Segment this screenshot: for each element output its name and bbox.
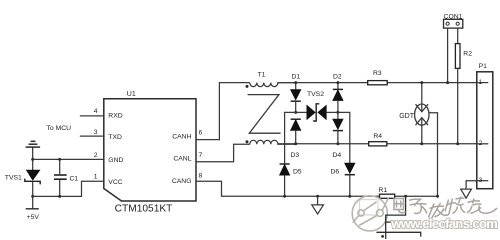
svg-text:D5: D5 bbox=[293, 168, 302, 175]
T1 top winding bbox=[250, 83, 296, 87]
diode D2 bbox=[333, 83, 343, 113]
resistor R2 bbox=[455, 44, 460, 69]
svg-text:R3: R3 bbox=[373, 70, 382, 77]
wire P1 pin3 to earth bbox=[466, 181, 477, 189]
node TVS1 top junction bbox=[31, 158, 34, 161]
svg-text:1: 1 bbox=[94, 173, 98, 180]
node D6 earth junction bbox=[348, 195, 351, 198]
wire pin3 TXD stub bbox=[80, 135, 104, 137]
svg-text:R4: R4 bbox=[373, 133, 382, 140]
svg-text:P1: P1 bbox=[479, 63, 488, 70]
svg-text:1: 1 bbox=[479, 79, 483, 86]
svg-text:T1: T1 bbox=[258, 72, 266, 79]
node R2 bottom junction bbox=[456, 142, 459, 145]
wire bottom rail CANL line bbox=[278, 143, 477, 145]
node D3 bottom bbox=[294, 142, 297, 145]
diode D6 branch wire bbox=[338, 112, 350, 163]
svg-text:TXD: TXD bbox=[108, 134, 122, 141]
烧 bbox=[445, 197, 465, 216]
node TVS2 left bbox=[294, 111, 297, 114]
node C1 top junction bbox=[58, 158, 61, 161]
resistor R3 bbox=[368, 81, 388, 85]
svg-text:3: 3 bbox=[94, 129, 98, 136]
diode D6 bbox=[345, 163, 355, 196]
protective earth symbol (open triangle) bbox=[312, 196, 324, 214]
svg-text:7: 7 bbox=[199, 152, 203, 159]
友 bbox=[467, 199, 497, 214]
diode D5 branch wire bbox=[285, 112, 296, 164]
diode D1 bbox=[291, 83, 301, 113]
wire +5V rail to VCC pin1 bbox=[33, 181, 104, 196]
node D4 bottom bbox=[336, 142, 339, 145]
watermark logo circle bbox=[352, 196, 388, 231]
wire CANH pin6 up to top rail bbox=[196, 83, 250, 140]
node fragment junction on earth rail bbox=[404, 195, 407, 198]
svg-text:U1: U1 bbox=[127, 91, 136, 98]
wire CANL pin7 up to bottom rail bbox=[196, 144, 250, 162]
svg-text:D4: D4 bbox=[333, 152, 342, 159]
gas discharge tube GDT bbox=[415, 83, 438, 197]
connector CON1 bbox=[444, 19, 463, 28]
node earth stub junction bbox=[316, 195, 319, 198]
svg-text:CANH: CANH bbox=[172, 133, 191, 140]
diode D3 bbox=[291, 119, 301, 144]
wire pin4 RXD stub bbox=[80, 115, 104, 117]
chassis ground symbol above TVS1 bbox=[26, 141, 40, 159]
watermark chinese text 电子发烧友 (drawn strokes) bbox=[394, 197, 497, 218]
svg-text:CANG: CANG bbox=[172, 178, 192, 185]
svg-text:4: 4 bbox=[94, 108, 98, 115]
node GDT earth tap bbox=[436, 195, 439, 198]
svg-text:3: 3 bbox=[479, 177, 483, 184]
wire earth rail right of R1 bbox=[395, 195, 438, 197]
svg-text:2: 2 bbox=[479, 140, 483, 147]
capacitor C1 bbox=[54, 159, 67, 196]
node GDT top bbox=[420, 81, 423, 84]
transient diode TVS1 bbox=[25, 159, 40, 196]
node D5 earth junction bbox=[283, 195, 286, 198]
svg-text:RXD: RXD bbox=[108, 112, 122, 119]
svg-text:2: 2 bbox=[94, 152, 98, 159]
node D1 top bbox=[294, 81, 297, 84]
svg-text:+5V: +5V bbox=[27, 214, 40, 221]
svg-text:VCC: VCC bbox=[108, 179, 122, 186]
svg-text:CON1: CON1 bbox=[444, 13, 463, 20]
T1 bottom winding bbox=[250, 140, 296, 144]
发 bbox=[429, 203, 446, 218]
wire CON1 left pin to CANH rail bbox=[447, 28, 449, 83]
node TVS1 bottom junction bbox=[31, 195, 34, 198]
电 bbox=[394, 199, 406, 213]
connector P1 bbox=[477, 72, 493, 189]
子 bbox=[409, 199, 427, 213]
resistor R1 bbox=[380, 194, 395, 198]
svg-text:D2: D2 bbox=[333, 74, 342, 81]
svg-text:GDT: GDT bbox=[399, 113, 415, 120]
protective earth symbol at P1 bbox=[461, 189, 472, 198]
svg-text:D1: D1 bbox=[292, 74, 301, 81]
T1 core Z mark bbox=[248, 95, 281, 134]
node D2 top bbox=[336, 81, 339, 84]
svg-text:GND: GND bbox=[108, 157, 123, 164]
wire R2 bottom to CANL rail bbox=[457, 68, 459, 143]
+5V power symbol bbox=[26, 196, 39, 208]
diode D5 bbox=[280, 164, 290, 196]
svg-text:CTM1051KT: CTM1051KT bbox=[115, 204, 173, 215]
node TVS2 right bbox=[336, 111, 339, 114]
svg-text:D3: D3 bbox=[291, 152, 300, 159]
diode D4 bbox=[333, 112, 343, 143]
wire CON1 right pin to R2 bbox=[457, 28, 459, 43]
resistor R4 bbox=[369, 142, 387, 146]
wire CANG pin8 down to earth rail bbox=[196, 181, 380, 196]
wire cropped fragment bottom bbox=[376, 196, 420, 239]
op-amp U1 chip body CTM1051KT bbox=[104, 99, 196, 201]
svg-text:TVS1: TVS1 bbox=[5, 175, 22, 182]
svg-text:6: 6 bbox=[199, 129, 203, 136]
svg-text:R2: R2 bbox=[463, 50, 472, 57]
svg-text:CANL: CANL bbox=[173, 156, 191, 163]
svg-text:TVS2: TVS2 bbox=[307, 91, 324, 98]
transformer T1 common-mode choke bbox=[246, 83, 297, 145]
svg-text:C1: C1 bbox=[70, 175, 79, 182]
bidirectional TVS2 bbox=[296, 104, 338, 121]
svg-text:D6: D6 bbox=[331, 168, 340, 175]
T1 top winding polarity dot bbox=[246, 85, 249, 88]
svg-text:8: 8 bbox=[199, 173, 203, 180]
T1 bottom winding polarity dot bbox=[246, 140, 249, 143]
node fragment dot bbox=[381, 235, 384, 238]
svg-text:To MCU: To MCU bbox=[47, 125, 72, 132]
wire GND rail pin2 bbox=[33, 158, 104, 160]
node CON1 junction bbox=[446, 81, 449, 84]
svg-text:R1: R1 bbox=[378, 187, 387, 194]
svg-text:www.elecfans.com: www.elecfans.com bbox=[390, 216, 497, 231]
node C1 bottom junction bbox=[58, 195, 61, 198]
wire top rail CANH line bbox=[278, 82, 477, 84]
node GDT bottom bbox=[420, 142, 423, 145]
